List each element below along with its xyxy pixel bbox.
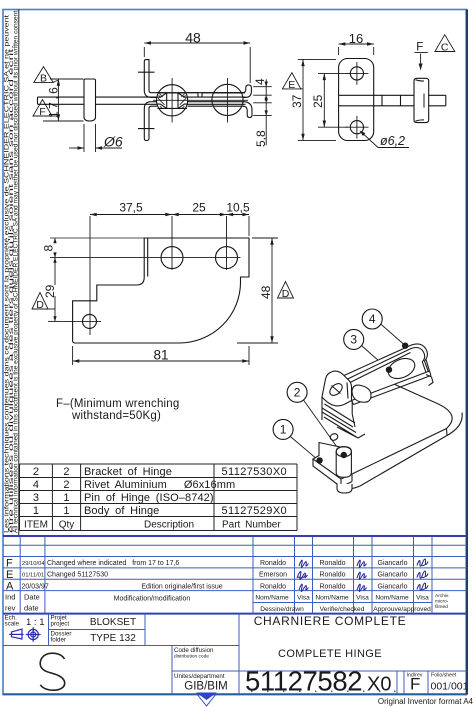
balloon 4 — [362, 309, 382, 329]
svg-text:48: 48 — [259, 285, 273, 299]
svg-text:Nom/Name: Nom/Name — [315, 595, 349, 602]
svg-text:001/001: 001/001 — [431, 681, 469, 693]
svg-text:Qty: Qty — [59, 520, 75, 531]
svg-text:scale: scale — [5, 621, 20, 628]
svg-text:3: 3 — [350, 333, 357, 347]
svg-text:Giancarlo: Giancarlo — [378, 572, 408, 579]
datum D flag left — [32, 293, 48, 310]
rivet cylinder — [336, 447, 351, 478]
dims 4 and 5,8 — [253, 79, 272, 145]
svg-text:Edition originale/first issue: Edition originale/first issue — [141, 584, 222, 591]
bracket top face — [344, 344, 430, 401]
isometric part — [313, 344, 462, 493]
small hole on step — [329, 432, 339, 441]
svg-text:1: 1 — [33, 505, 39, 517]
svg-text:D: D — [282, 288, 290, 300]
svg-text:Date: Date — [24, 593, 40, 602]
svg-text:2: 2 — [63, 466, 69, 478]
svg-text:Nom/Name: Nom/Name — [255, 595, 289, 602]
signatures — [297, 559, 428, 592]
svg-text:F: F — [39, 106, 45, 118]
centrelines — [153, 78, 248, 123]
svg-text:2: 2 — [33, 466, 39, 478]
bottom centre fold mark — [196, 693, 217, 707]
S logo — [40, 653, 65, 690]
right upper tab — [243, 85, 251, 98]
svg-text:COMPLETE HINGE: COMPLETE HINGE — [278, 648, 382, 660]
dim Ø6,2 leader — [361, 132, 409, 148]
svg-text:BLOKSET: BLOKSET — [90, 617, 136, 628]
dim 48 — [144, 43, 250, 83]
dim 37 — [298, 59, 336, 140]
margin legal text — [5, 9, 20, 533]
svg-text:Rivet Aluminium Ø6x16mm: Rivet Aluminium Ø6x16mm — [84, 479, 235, 491]
svg-text:51127530X0: 51127530X0 — [222, 466, 288, 478]
svg-text:2: 2 — [63, 479, 69, 491]
svg-text:CHARNIERE COMPLETE: CHARNIERE COMPLETE — [254, 614, 407, 628]
bracket ovals — [385, 355, 418, 383]
svg-text:25: 25 — [192, 201, 206, 215]
svg-text:Bracket of Hinge: Bracket of Hinge — [84, 466, 172, 478]
svg-text:01/11/01: 01/11/01 — [22, 573, 44, 579]
svg-text:Original Inventor format A4: Original Inventor format A4 — [378, 697, 474, 706]
svg-text:Visa: Visa — [297, 595, 310, 602]
foot pad — [337, 484, 352, 493]
svg-text:8: 8 — [42, 245, 56, 252]
svg-text:Archiv.: Archiv. — [435, 593, 449, 599]
svg-text:1: 1 — [280, 423, 287, 437]
dim Ø6 — [69, 124, 122, 152]
note text — [56, 398, 180, 422]
datum E flag — [282, 73, 300, 89]
svg-text:E: E — [288, 79, 295, 91]
left tab — [322, 371, 352, 406]
svg-text:Pin of Hinge (ISO–8742): Pin of Hinge (ISO–8742) — [84, 492, 214, 504]
svg-text:5,8: 5,8 — [254, 130, 268, 147]
svg-text:F: F — [6, 558, 13, 570]
svg-text:TYPE 132: TYPE 132 — [90, 633, 136, 644]
svg-text:Changed where indicated from: Changed where indicated from 17 to 17,6 — [47, 560, 179, 567]
base plate top face — [313, 371, 452, 479]
knuckle circle 2 — [212, 84, 243, 115]
svg-text:3: 3 — [33, 492, 39, 504]
svg-text:Folio/sheet: Folio/sheet — [431, 673, 457, 679]
svg-text:1: 1 — [63, 492, 69, 504]
svg-text:Ronaldo: Ronaldo — [319, 560, 345, 567]
svg-text:Ind: Ind — [5, 593, 15, 602]
balloon leader dots — [316, 343, 408, 464]
datum F flag — [33, 100, 58, 117]
pin bar — [339, 95, 446, 106]
svg-text:Giancarlo: Giancarlo — [378, 584, 408, 591]
svg-text:X0: X0 — [367, 674, 391, 696]
svg-text:29/10/04: 29/10/04 — [22, 561, 45, 567]
svg-text:Ronaldo: Ronaldo — [260, 584, 286, 591]
balloon 3 — [344, 329, 364, 349]
svg-text:Visa: Visa — [356, 595, 369, 602]
first angle projection symbol — [9, 627, 40, 642]
svg-text:Visa: Visa — [416, 595, 429, 602]
svg-text:Unites/department: Unites/department — [174, 673, 225, 680]
svg-text:date: date — [24, 604, 39, 613]
svg-text:distribution code: distribution code — [174, 654, 209, 660]
dim 16 — [339, 44, 374, 55]
revision table — [3, 536, 467, 614]
svg-text:F–(Minimum wrenching: F–(Minimum wrenching — [56, 398, 180, 410]
svg-text:1 : 1: 1 : 1 — [26, 617, 45, 628]
dim 25 — [318, 73, 348, 127]
svg-text:rev: rev — [5, 604, 16, 613]
body upper flange — [138, 60, 245, 98]
svg-text:ITEM: ITEM — [24, 520, 48, 531]
svg-text:folder: folder — [51, 637, 66, 644]
svg-text:2: 2 — [294, 386, 301, 400]
svg-text:Ronaldo: Ronaldo — [260, 560, 286, 567]
dim 8 and 29 — [48, 238, 145, 321]
datum B flag — [34, 67, 59, 83]
body stepped left edge — [322, 397, 365, 438]
svg-text:A: A — [6, 581, 14, 593]
bracket plate — [339, 59, 374, 141]
svg-text:C: C — [441, 42, 449, 54]
margin separator line — [18, 10, 20, 536]
datum D flag right — [278, 282, 294, 299]
svg-text:29: 29 — [43, 284, 57, 298]
view 3 : top view of hinge body — [32, 201, 294, 366]
svg-text:4: 4 — [33, 479, 39, 491]
svg-text:D: D — [36, 299, 44, 311]
svg-text:Ø6: Ø6 — [103, 134, 123, 150]
svg-text:Emerson: Emerson — [259, 572, 287, 579]
svg-text:1: 1 — [63, 505, 69, 517]
svg-text:Nom/Name: Nom/Name — [375, 595, 409, 602]
svg-text:F: F — [416, 42, 423, 54]
dim 17,6 — [43, 79, 84, 121]
svg-text:20/03/97: 20/03/97 — [22, 584, 49, 591]
svg-text:Dessine/drawn: Dessine/drawn — [260, 606, 304, 613]
svg-text:Verifie/checked: Verifie/checked — [320, 606, 365, 613]
svg-text:Code diffusion: Code diffusion — [174, 647, 214, 654]
svg-text:10,5: 10,5 — [226, 201, 250, 215]
balloon 2 — [287, 382, 307, 402]
dim 48 right — [237, 238, 278, 343]
svg-text:37: 37 — [290, 94, 304, 108]
view 2 : front view of bracket — [282, 31, 454, 148]
svg-text:Description: Description — [144, 520, 194, 531]
svg-text:project: project — [51, 621, 70, 628]
svg-text:filmed: filmed — [435, 604, 448, 610]
svg-text:Ronaldo: Ronaldo — [319, 572, 345, 579]
svg-text:Ronaldo: Ronaldo — [319, 584, 345, 591]
balloon 1 — [273, 419, 293, 439]
svg-text:16: 16 — [349, 31, 363, 46]
right lower tab — [243, 102, 252, 118]
svg-text:Part Number: Part Number — [222, 520, 281, 531]
svg-text:4: 4 — [369, 312, 376, 326]
svg-text:Approuve/approved: Approuve/approved — [373, 606, 431, 613]
svg-text:Changed 51127530: Changed 51127530 — [47, 572, 108, 579]
view 1 : side view of assembled hinge — [33, 30, 272, 153]
svg-text:B: B — [40, 73, 47, 85]
svg-text:51127529X0: 51127529X0 — [222, 505, 288, 517]
svg-text:Giancarlo: Giancarlo — [378, 560, 408, 567]
svg-text:4: 4 — [253, 78, 267, 85]
svg-text:F: F — [410, 675, 420, 694]
view 4 : isometric assembly — [273, 309, 462, 493]
pin bar — [38, 97, 246, 104]
svg-text:ø6,2: ø6,2 — [380, 134, 405, 148]
knuckle circle 1 with rivet section — [157, 85, 188, 116]
body lower flange — [138, 102, 157, 141]
svg-text:25: 25 — [311, 94, 325, 108]
svg-text:81: 81 — [153, 348, 168, 363]
svg-text:Modification/modification: Modification/modification — [114, 596, 191, 603]
strip holes — [161, 247, 183, 269]
svg-text:Body of Hinge: Body of Hinge — [84, 505, 159, 517]
sleeve — [414, 78, 429, 122]
pin cylinder left — [84, 79, 96, 121]
dim 81 — [73, 346, 249, 365]
svg-text:micro-: micro- — [435, 599, 449, 605]
body right lip — [426, 375, 433, 386]
svg-text:48: 48 — [185, 30, 201, 46]
title block — [3, 614, 469, 697]
svg-text:51127582: 51127582 — [245, 666, 362, 697]
svg-text:GIB/BIM: GIB/BIM — [184, 681, 227, 693]
svg-text:37,5: 37,5 — [119, 201, 143, 215]
datum C flag — [435, 35, 455, 52]
svg-text:All technical information cont: All technical information contained in t… — [14, 9, 20, 533]
holes — [350, 67, 363, 80]
svg-text:E: E — [6, 569, 13, 581]
svg-text:17,6: 17,6 — [47, 85, 61, 118]
part outline — [73, 238, 249, 343]
top dims 37,5 / 25 / 10,5 — [90, 215, 249, 336]
svg-text:withstand=50Kg): withstand=50Kg) — [71, 410, 161, 422]
parts table — [20, 464, 298, 531]
small hole — [83, 314, 97, 328]
base plate thickness — [313, 413, 462, 489]
leaf lines between knuckles — [151, 93, 245, 107]
